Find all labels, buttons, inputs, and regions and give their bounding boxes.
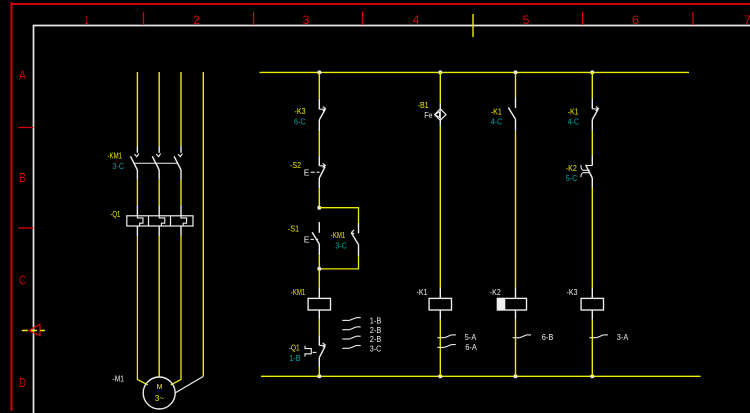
relay coil K2 with filled section <box>515 288 517 299</box>
top ruler tick 1|2 <box>143 12 145 25</box>
wire phase 2 middle <box>158 180 160 206</box>
wire KM1 aux lower to branch node <box>319 255 358 269</box>
top ruler tick 6|7 <box>692 12 694 25</box>
wire phase 2 to motor <box>158 236 160 377</box>
wire column C to K2 coil <box>515 130 517 287</box>
wire column A between S2 and branch node <box>318 188 320 207</box>
contactor KM1 main contact pole 3 <box>180 146 182 153</box>
svg-text:4: 4 <box>413 13 420 27</box>
overload relay Q1 body <box>127 216 193 226</box>
svg-text:-K2: -K2 <box>566 163 577 173</box>
svg-text:-K3: -K3 <box>295 106 306 116</box>
wire column D coil to bottom bus <box>591 320 593 377</box>
svg-text:6-B: 6-B <box>542 333 554 342</box>
svg-text:3: 3 <box>303 13 310 27</box>
cross-reference contact KM1 3-C <box>342 347 349 349</box>
svg-text:-B1: -B1 <box>418 100 429 110</box>
svg-text:Fe: Fe <box>424 110 432 120</box>
wire PE conductor <box>202 72 204 376</box>
svg-text:2: 2 <box>193 13 200 27</box>
overload relay Q1 thermal release flag <box>305 346 311 357</box>
svg-text:3-C: 3-C <box>335 240 347 250</box>
contactor KM1 mechanical linkage line <box>134 162 178 164</box>
relay coil K3 label and coil <box>591 288 593 299</box>
wire L2 phase 2 upper <box>158 72 160 146</box>
left border section marker yellow dashed line <box>22 330 45 332</box>
svg-text:-K1: -K1 <box>568 106 579 116</box>
svg-text:2-B: 2-B <box>370 326 382 335</box>
left ruler tick B|C <box>18 227 34 229</box>
cross-reference contact KM1 2-B <box>342 338 349 340</box>
wire phase 3 to motor <box>171 236 181 385</box>
svg-text:6: 6 <box>632 13 639 27</box>
svg-text:5-C: 5-C <box>566 173 578 183</box>
svg-text:2-B: 2-B <box>370 335 382 344</box>
svg-text:A: A <box>19 69 27 83</box>
wire branch to KM1 aux upper <box>319 208 358 223</box>
svg-text:3~: 3~ <box>155 394 165 403</box>
junction node bottom bus <box>317 374 321 378</box>
svg-text:3-A: 3-A <box>617 333 629 342</box>
svg-text:-K1: -K1 <box>491 106 502 116</box>
cross-reference contact KM1 2-B <box>342 329 349 331</box>
wire column B from top bus <box>439 72 441 103</box>
left border section marker red triangle <box>29 324 40 335</box>
top ruler tick 5|6 <box>582 12 584 25</box>
svg-text:-M1: -M1 <box>113 374 125 384</box>
left ruler tick A|B <box>18 127 34 129</box>
wire phase 3 middle <box>180 180 182 206</box>
contactor KM1 main contact pole 1 <box>136 146 138 153</box>
motor PE connection wire <box>175 376 203 393</box>
svg-text:-S1: -S1 <box>288 223 299 233</box>
wire column B to K1 coil <box>439 126 441 288</box>
wire column B coil to bottom bus <box>439 320 441 377</box>
svg-text:-K2: -K2 <box>490 287 501 297</box>
svg-text:4-C: 4-C <box>568 116 580 126</box>
overload relay Q1 heater element 1 <box>136 206 138 216</box>
svg-text:M: M <box>157 384 163 391</box>
junction node top bus <box>317 70 321 74</box>
overload relay Q1 heater element 2 <box>158 206 160 216</box>
motor M1 circle <box>143 377 175 409</box>
wire column C coil to bottom bus <box>515 320 517 377</box>
svg-text:-KM1: -KM1 <box>331 230 346 240</box>
wire column A from top bus <box>318 72 320 98</box>
pushbutton S2 NC break contact <box>318 156 320 166</box>
drawing frame red outer border <box>11 2 13 411</box>
control circuit bottom bus L- <box>261 375 701 377</box>
junction node branch bottom <box>317 267 321 271</box>
contactor KM1 auxiliary NO contact <box>358 223 360 234</box>
overload relay Q1 auxiliary NC contact <box>318 336 320 346</box>
junction node top bus <box>438 70 442 74</box>
svg-text:-S2: -S2 <box>290 160 301 170</box>
svg-text:5: 5 <box>523 13 530 27</box>
svg-text:D: D <box>19 376 26 390</box>
wire column A between K3 and S2 <box>318 131 320 156</box>
wire column A to bottom bus <box>318 367 320 376</box>
junction node bottom bus <box>438 374 442 378</box>
junction node branch top <box>317 206 321 210</box>
svg-text:B: B <box>19 171 26 185</box>
svg-text:4-C: 4-C <box>491 116 503 126</box>
svg-text:6-C: 6-C <box>294 116 306 126</box>
svg-text:-Q1: -Q1 <box>289 343 300 353</box>
relay contact K1 NO <box>515 97 517 108</box>
svg-text:3-C: 3-C <box>370 344 382 353</box>
relay coil K1 label and coil <box>439 288 441 299</box>
wire column D between K1 and K2 <box>591 131 593 156</box>
svg-text:7: 7 <box>744 13 750 27</box>
cross-reference contact K3 3-A <box>589 337 596 339</box>
wire L1 phase 1 upper <box>136 72 138 146</box>
overload relay Q1 heater element 3 <box>180 206 182 216</box>
top ruler tick 2|3 <box>253 12 255 25</box>
svg-text:1-B: 1-B <box>289 353 301 363</box>
wire L3 phase 3 upper <box>180 72 182 146</box>
pushbutton S1 NO make contact <box>318 222 320 233</box>
wire column D K2 to K3 coil <box>591 188 593 288</box>
svg-text:-KM1: -KM1 <box>108 151 123 161</box>
wire column A coil to Q1 aux <box>318 320 320 336</box>
wire column A S1 lower <box>318 255 320 269</box>
svg-text:C: C <box>19 274 26 288</box>
svg-text:5-A: 5-A <box>465 333 477 342</box>
contactor KM1 main contact pole 2 <box>158 146 160 153</box>
contactor coil KM1 <box>318 288 320 299</box>
cross-reference contact K1 6-A <box>437 346 444 348</box>
svg-text:-KM1: -KM1 <box>291 287 306 297</box>
cross-reference contact KM1 1-B <box>342 319 349 321</box>
top ruler yellow tick 4|5 <box>472 14 474 37</box>
control circuit top bus L+ <box>260 71 690 73</box>
svg-text:-K1: -K1 <box>417 287 428 297</box>
svg-text:1-B: 1-B <box>370 317 382 326</box>
svg-text:-K3: -K3 <box>567 287 578 297</box>
relay contact K2 NC off-delay <box>591 155 593 165</box>
svg-text:-Q1: -Q1 <box>110 209 120 219</box>
svg-text:E: E <box>304 168 310 178</box>
wire column A to KM1 coil <box>318 269 320 288</box>
junction node bottom bus <box>514 374 518 378</box>
wire phase 1 to motor <box>137 236 147 385</box>
cross-reference contact K2 6-B <box>513 337 520 339</box>
wire phase 1 middle <box>136 180 138 206</box>
junction node top bus <box>590 70 594 74</box>
cross-reference contact K1 5-A <box>437 337 444 339</box>
wire column D from top bus <box>591 72 593 98</box>
svg-text:6-A: 6-A <box>465 343 477 352</box>
top ruler tick 3|4 <box>362 12 364 25</box>
temperature sensor B1 symbol <box>439 103 441 109</box>
junction node top bus <box>514 70 518 74</box>
relay contact K3 NO <box>318 99 320 109</box>
svg-text:E: E <box>304 234 310 244</box>
svg-text:1: 1 <box>85 13 89 27</box>
wire column C from top bus <box>515 72 517 97</box>
relay contact K1 NO right <box>591 99 593 109</box>
junction node bottom bus <box>590 374 594 378</box>
svg-text:3-C: 3-C <box>113 161 125 171</box>
